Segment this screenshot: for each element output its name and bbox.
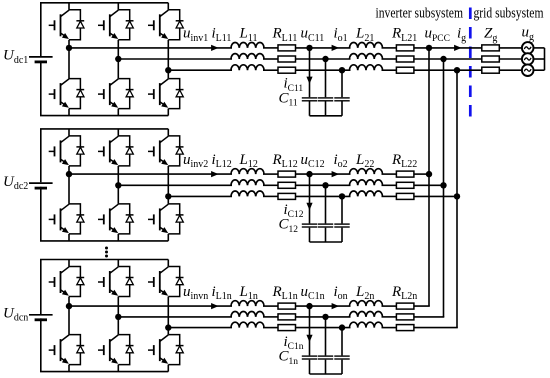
resistor R_L21 phase a (396, 45, 414, 51)
resistor R_L11 phase a (278, 45, 296, 51)
resistor R_L1n phase c (278, 325, 296, 331)
current arrow i_L1n (211, 303, 218, 309)
node: PCC phase b (440, 56, 446, 62)
node: filter capacitor tap phase c (339, 193, 345, 199)
inverter 2 leg a upper wire (68, 129, 70, 136)
wire: capacitor common connection C12 (310, 241, 343, 243)
resistor R_L22 phase b (396, 182, 414, 188)
DC source U_dcn battery (29, 314, 53, 316)
svg-text:grid subsystem: grid subsystem (474, 6, 544, 22)
wire: R_L21 to Z_g phase c (414, 69, 482, 71)
current arrow i_g (454, 45, 461, 51)
inverter 1 leg a upper wire (68, 3, 70, 10)
grid impedance Z_g phase a (482, 45, 500, 51)
wire: capacitor branch phase b lower (325, 360, 327, 374)
inverter 2 leg c upper wire (167, 129, 169, 136)
wire: L2n to R_L2n phase c (382, 327, 397, 329)
wire: L2n to R_L2n phase b (382, 316, 397, 318)
inverter 1 leg a midpoint wire (68, 40, 70, 79)
inductor L2n phase b (350, 311, 383, 316)
capacitor C11 phase c (334, 97, 349, 99)
wire: L21 to R_L21 phase a (382, 47, 397, 49)
wire: grid source to neutral phase a (533, 47, 545, 49)
node: inverter 1 phase c output junction (165, 67, 171, 73)
resistor R_L11 phase b (278, 56, 296, 62)
inductor L22 phase c (350, 191, 383, 196)
wire: capacitor branch phase b lower (325, 228, 327, 242)
wire: R_L22 output to bus phase a (414, 173, 429, 175)
node: inverter n phase b output junction (115, 314, 121, 320)
node: filter capacitor tap phase b (322, 56, 328, 62)
current arrow i_on (332, 303, 339, 309)
wire: capacitor branch phase b upper (325, 185, 327, 223)
inverter 2 leg b lower wire (117, 234, 119, 241)
wire: L22 to R_L22 phase c (382, 195, 397, 197)
inverter 2 DC bus (top rail, left rail, bottom rail) (41, 129, 169, 241)
inverter n leg a lower wire (68, 365, 70, 372)
inverter 2 leg c midpoint wire (167, 166, 169, 204)
wire: Z_g to grid source phase b (499, 58, 523, 60)
inverter 2 leg b midpoint wire (117, 166, 119, 204)
wire: capacitor branch phase a lower (309, 360, 311, 374)
wire: inverter 1 phase c output to L11 (168, 69, 232, 71)
inverter n DC bus (top rail, left rail, bottom rail) (41, 260, 169, 372)
wire: paralleling bus phase a (PCC to inverter n) (428, 48, 430, 306)
inverter 1 leg b lower wire (117, 109, 119, 116)
inverter n leg c upper wire (167, 260, 169, 267)
wire: Z_g to grid source phase c (499, 69, 523, 71)
grid impedance Z_g phase b (482, 56, 500, 62)
grid voltage source u_g phase b (522, 53, 534, 65)
IGBT Q2c2 (lower, with diode) (148, 204, 184, 234)
wire: R_L12 to L22 phase a (296, 173, 351, 175)
inductor L1n phase c (231, 322, 264, 327)
IGBT Q1a2 (lower, with diode) (49, 79, 84, 109)
inverter 1 leg b upper wire (117, 3, 119, 10)
wire: R_L22 output to bus phase c (414, 195, 457, 197)
current arrow i_L12 (211, 171, 218, 177)
wire: capacitor branch phase c upper (341, 328, 343, 356)
current arrow i_L11 (211, 45, 218, 51)
capacitor C1n phase a (302, 355, 317, 357)
wire: capacitor branch phase a upper (309, 306, 311, 355)
wire: R_L21 to Z_g phase b (414, 58, 482, 60)
resistor R_L12 phase b (278, 182, 296, 188)
current arrow i_C1n (306, 335, 312, 342)
inductor L11 phase b (231, 54, 264, 59)
IGBT Q1b2 (lower, with diode) (98, 79, 134, 109)
node: inverter 1 phase a output junction (66, 45, 72, 51)
inverter 2 leg a midpoint wire (68, 166, 70, 204)
wire: Z_g to grid source phase a (499, 47, 523, 49)
IGBT Q2b2 (lower, with diode) (98, 204, 134, 234)
inductor L12 phase a (231, 169, 264, 174)
IGBT Q2c1 (upper, with diode) (148, 136, 184, 166)
wire: L11 to R_L11 phase c (263, 69, 278, 71)
inverter 1 leg c lower wire (167, 109, 169, 116)
wire: L21 to R_L21 phase b (382, 58, 397, 60)
grid voltage source u_g phase a (522, 42, 534, 54)
inverter 1 DC bus (top rail, left rail, bottom rail) (41, 3, 169, 116)
capacitor C1n phase b (318, 355, 333, 357)
IGBT Q2b1 (upper, with diode) (98, 136, 134, 166)
wire: R_L1n to L2n phase a (296, 305, 351, 307)
wire: capacitor common connection C1n (310, 373, 343, 375)
IGBT Qna1 (upper, with diode) (49, 267, 84, 297)
current arrow i_o1 (332, 45, 339, 51)
node: PCC phase a (426, 45, 432, 51)
wire: L21 to R_L21 phase c (382, 69, 397, 71)
capacitor C12 phase b (318, 223, 333, 225)
node: filter capacitor tap phase c (339, 67, 345, 73)
inductor L22 phase a (350, 169, 383, 174)
wire: L12 to R_L12 phase b (263, 184, 278, 186)
wire: R_L1n to L2n phase b (296, 316, 351, 318)
current arrow i_C11 (306, 77, 312, 84)
IGBT Qnb1 (upper, with diode) (98, 267, 134, 297)
wire: capacitor branch phase a lower (309, 102, 311, 116)
inductor L2n phase a (350, 301, 383, 306)
wire: inverter n phase a output to L1n (69, 305, 232, 307)
inverter 1 leg b midpoint wire (117, 40, 119, 79)
wire: paralleling bus phase c (PCC to inverter n) (456, 70, 458, 327)
node: inverter n phase c output junction (165, 324, 171, 330)
resistor R_L1n phase a (278, 303, 296, 309)
node: filter capacitor tap phase b (322, 314, 328, 320)
wire: capacitor branch phase c lower (341, 102, 343, 116)
svg-text:inverter subsystem: inverter subsystem (376, 6, 464, 22)
inductor L11 phase a (231, 43, 264, 48)
inverter n leg a midpoint wire (68, 297, 70, 335)
resistor R_L12 phase a (278, 171, 296, 177)
wire: capacitor branch phase c lower (341, 360, 343, 374)
current arrow i_C12 (306, 203, 312, 210)
capacitor C11 phase a (302, 97, 317, 99)
wire: capacitor branch phase c upper (341, 70, 343, 97)
node: inverter 2 phase b output junction (115, 182, 121, 188)
inductor L11 phase c (231, 65, 264, 70)
node: filter capacitor tap phase b (322, 182, 328, 188)
wire: L11 to R_L11 phase b (263, 58, 278, 60)
IGBT Qnc1 (upper, with diode) (148, 267, 184, 297)
wire: inverter 2 phase a output to L12 (69, 173, 232, 175)
node: bus junction inverter 2 phase b (440, 182, 446, 188)
node: bus junction inverter 2 phase c (454, 193, 460, 199)
node: PCC phase c (454, 67, 460, 73)
wire: capacitor branch phase b lower (325, 102, 327, 116)
wire: R_L11 to L21 phase b (296, 58, 351, 60)
resistor R_L2n phase c (396, 325, 414, 331)
resistor R_L11 phase c (278, 67, 296, 73)
wire: R_L2n output to bus phase c (414, 327, 458, 329)
IGBT Qnb2 (lower, with diode) (98, 335, 134, 365)
inductor L12 phase c (231, 191, 264, 196)
wire: grid neutral bus (544, 48, 546, 70)
wire: R_L1n to L2n phase c (296, 327, 351, 329)
wire: R_L11 to L21 phase c (296, 69, 351, 71)
IGBT Q1c1 (upper, with diode) (148, 10, 184, 40)
resistor R_L21 phase c (396, 67, 414, 73)
wire: inverter 1 phase b output to L11 (118, 58, 232, 60)
wire: grid source to neutral phase c (533, 69, 545, 71)
DC source U_dc2 battery (29, 182, 53, 184)
inductor L2n phase c (350, 322, 383, 327)
DC source U_dc1 battery (29, 56, 53, 58)
IGBT Q1b1 (upper, with diode) (98, 10, 134, 40)
wire: inverter n phase b output to L1n (118, 316, 232, 318)
wire: capacitor branch phase c upper (341, 196, 343, 223)
IGBT Q1c2 (lower, with diode) (148, 79, 184, 109)
wire: capacitor branch phase a upper (309, 174, 311, 223)
resistor R_L12 phase c (278, 193, 296, 199)
inverter 1 leg a lower wire (68, 109, 70, 116)
inverter 2 leg b upper wire (117, 129, 119, 136)
wire: R_L12 to L22 phase c (296, 195, 351, 197)
capacitor C1n phase c (334, 355, 349, 357)
inductor L12 phase b (231, 180, 264, 185)
inverter 1 leg c midpoint wire (167, 40, 169, 79)
capacitor C11 phase b (318, 97, 333, 99)
grid voltage source u_g phase c (522, 64, 534, 76)
inverter n leg b midpoint wire (117, 297, 119, 335)
wire: R_L2n output to bus phase b (414, 316, 444, 318)
resistor R_L21 phase b (396, 56, 414, 62)
subsystem boundary dashed line (469, 8, 472, 118)
wire: R_L11 to L21 phase a (296, 47, 351, 49)
wire: R_L21 to Z_g phase a (414, 47, 482, 49)
inverter n leg a upper wire (68, 260, 70, 267)
inverter 2 leg a lower wire (68, 234, 70, 241)
IGBT Q2a1 (upper, with diode) (49, 136, 84, 166)
resistor R_L1n phase b (278, 314, 296, 320)
wire: L11 to R_L11 phase a (263, 47, 278, 49)
wire: L12 to R_L12 phase c (263, 195, 278, 197)
wire: grid source to neutral phase b (533, 58, 545, 60)
wire: capacitor branch phase b upper (325, 317, 327, 356)
capacitor C12 phase c (334, 223, 349, 225)
current arrow i_o2 (332, 171, 339, 177)
IGBT Qnc2 (lower, with diode) (148, 335, 184, 365)
wire: paralleling bus phase b (PCC to inverter n) (443, 59, 445, 317)
inductor L21 phase a (350, 43, 383, 48)
resistor R_L22 phase a (396, 171, 414, 177)
inverter n leg c lower wire (167, 365, 169, 372)
grid impedance Z_g phase c (482, 67, 500, 73)
node: inverter 1 phase b output junction (115, 56, 121, 62)
wire: L1n to R_L1n phase c (263, 327, 278, 329)
wire: L22 to R_L22 phase a (382, 173, 397, 175)
node: inverter n phase a output junction (66, 303, 72, 309)
inverter n leg b upper wire (117, 260, 119, 267)
inductor L1n phase b (231, 311, 264, 316)
inductor L21 phase c (350, 65, 383, 70)
node: filter capacitor tap phase a (306, 171, 312, 177)
wire: L1n to R_L1n phase a (263, 305, 278, 307)
node: inverter 2 phase c output junction (165, 193, 171, 199)
wire: capacitor branch phase a upper (309, 48, 311, 97)
ellipsis (more paralleled inverters) (105, 247, 108, 250)
wire: capacitor branch phase b upper (325, 59, 327, 97)
wire: inverter 2 phase b output to L12 (118, 184, 232, 186)
IGBT Q1a1 (upper, with diode) (49, 10, 84, 40)
IGBT Q2a2 (lower, with diode) (49, 204, 84, 234)
wire: L1n to R_L1n phase b (263, 316, 278, 318)
inductor L1n phase a (231, 301, 264, 306)
inverter n leg b lower wire (117, 365, 119, 372)
resistor R_L2n phase a (396, 303, 414, 309)
inverter 2 leg c lower wire (167, 234, 169, 241)
wire: L2n to R_L2n phase a (382, 305, 397, 307)
node: inverter 2 phase a output junction (66, 171, 72, 177)
IGBT Qna2 (lower, with diode) (49, 335, 84, 365)
wire: capacitor branch phase c lower (341, 228, 343, 242)
capacitor C12 phase a (302, 223, 317, 225)
wire: R_L12 to L22 phase b (296, 184, 351, 186)
inverter n leg c midpoint wire (167, 297, 169, 335)
inductor L22 phase b (350, 180, 383, 185)
inverter 1 leg c upper wire (167, 3, 169, 10)
wire: inverter n phase c output to L1n (168, 327, 232, 329)
wire: capacitor common connection C11 (310, 115, 343, 117)
wire: R_L22 output to bus phase b (414, 184, 444, 186)
resistor R_L2n phase b (396, 314, 414, 320)
resistor R_L22 phase c (396, 193, 414, 199)
wire: capacitor branch phase a lower (309, 228, 311, 242)
inductor L21 phase b (350, 54, 383, 59)
node: filter capacitor tap phase c (339, 324, 345, 330)
node: filter capacitor tap phase a (306, 45, 312, 51)
wire: inverter 2 phase c output to L12 (168, 195, 232, 197)
node: bus junction inverter 2 phase a (426, 171, 432, 177)
wire: inverter 1 phase a output to L11 (69, 47, 232, 49)
wire: R_L2n output to bus phase a (414, 305, 430, 307)
wire: L12 to R_L12 phase a (263, 173, 278, 175)
wire: L22 to R_L22 phase b (382, 184, 397, 186)
node: filter capacitor tap phase a (306, 303, 312, 309)
